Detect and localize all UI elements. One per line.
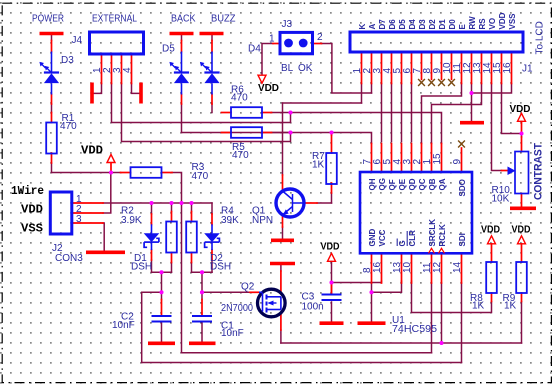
pin pot bot (521, 194, 523, 207)
svg-text:DSH: DSH (131, 262, 152, 273)
wire Q2 drain (280, 265, 282, 271)
svg-text:4: 4 (122, 67, 133, 73)
pin J1 16 (511, 52, 513, 84)
wire R7 top stub (331, 133, 333, 136)
wire gate branch (202, 291, 250, 293)
svg-text:D3: D3 (61, 55, 74, 66)
pin R9 bot (521, 293, 523, 302)
svg-text:1K: 1K (312, 160, 325, 171)
svg-text:10K: 10K (492, 194, 510, 205)
wire SRCLK drop (431, 283, 433, 353)
junction (329, 130, 333, 134)
resistor R6 (231, 107, 262, 118)
wire R2 bottom (171, 263, 173, 273)
pin J2 p1 (72, 202, 103, 204)
svg-text:E: E (458, 24, 467, 30)
junction (469, 91, 473, 95)
svg-text:470: 470 (231, 93, 248, 104)
wire C2 top (161, 292, 163, 299)
svg-text:EXTERNAL: EXTERNAL (92, 14, 137, 25)
svg-text:QG: QG (378, 178, 387, 190)
svg-text:SRCLK: SRCLK (428, 219, 437, 247)
junction (159, 270, 163, 274)
pin J1 8 (431, 52, 433, 79)
pin R6 right (262, 112, 272, 114)
gnd bar J2 (86, 251, 125, 255)
pin U1 top 381.5 (381, 144, 383, 173)
pin R3 right (162, 172, 172, 174)
wire J4pin3 jog (122, 84, 291, 142)
pin Q1 coll (282, 175, 284, 191)
gnd bar Q1 (271, 239, 294, 243)
pin U1 bot 441.5 (441, 253, 443, 283)
svg-text:1K: 1K (472, 301, 485, 312)
pin VDD15 (521, 122, 523, 134)
svg-text:RS: RS (478, 18, 487, 30)
wire Q2 source (280, 330, 282, 343)
VDD terminal R8 (488, 236, 496, 244)
wire J4pin1 gnd (92, 84, 101, 94)
wire J4pin4 gnd (132, 84, 141, 94)
pin R4 bot (191, 253, 193, 263)
pin J1 2 (371, 52, 373, 84)
wire C1 bottom (201, 322, 203, 342)
svg-text:D4: D4 (248, 44, 261, 55)
svg-text:10nF: 10nF (221, 328, 244, 339)
wire to SDI branch (142, 292, 162, 362)
svg-text:VDD: VDD (321, 242, 340, 253)
svg-text:CON3: CON3 (55, 253, 83, 264)
svg-text:14: 14 (452, 261, 463, 273)
svg-text:QB: QB (428, 178, 437, 190)
wire VDD3 drop (331, 262, 333, 294)
wire Q1 base (317, 202, 332, 204)
VDD terminal R9 (518, 236, 526, 244)
pin D3 top (51, 41, 53, 52)
LED D4 (200, 52, 220, 95)
pin R5 right (262, 132, 272, 134)
svg-text:2: 2 (317, 32, 323, 43)
junction (519, 131, 523, 135)
resistor R7 (326, 153, 337, 184)
pin R9 top (521, 244, 523, 262)
pin U1 top 421.5 (421, 144, 423, 173)
wire RCLK drop (441, 283, 443, 343)
junction (439, 341, 443, 345)
no-connect pin (418, 79, 425, 86)
pin U1 top 411.5 (411, 144, 413, 173)
svg-text:12: 12 (432, 261, 443, 273)
svg-text:10: 10 (402, 261, 413, 273)
svg-text:D1: D1 (438, 19, 447, 30)
power bar BUZZ (200, 32, 224, 36)
gnd bar C2 (148, 341, 175, 345)
svg-text:BACK: BACK (171, 14, 196, 25)
svg-text:QF: QF (388, 179, 397, 190)
wire QA trunk (272, 113, 442, 144)
wire C1 top (201, 292, 203, 299)
wire J1 pin3 drop (381, 84, 383, 142)
pin U1 top 441.5 (441, 144, 443, 173)
pin VDD2 rail (110, 163, 112, 173)
pin U1 sdo (461, 148, 463, 172)
svg-text:DSH: DSH (210, 262, 231, 273)
svg-text:D0: D0 (448, 19, 457, 30)
svg-text:RCLK: RCLK (438, 224, 447, 246)
svg-text:VDD: VDD (510, 104, 531, 115)
wire D4 lower (211, 104, 213, 113)
svg-text:100n: 100n (302, 302, 324, 313)
wire VDD rail (52, 172, 121, 174)
junction (159, 290, 163, 294)
wire U1 pin8 gnd (371, 283, 373, 322)
svg-text:VO: VO (488, 18, 497, 30)
clock edge marks pins 11,12 (429, 248, 445, 253)
pin Q1 emit (282, 216, 284, 228)
pin J4 p2 (111, 54, 113, 84)
svg-text:1Wire: 1Wire (11, 184, 44, 198)
wire C2 bottom (161, 322, 163, 342)
junction (288, 110, 292, 114)
wire R1 to rail (51, 163, 53, 173)
svg-text:D2: D2 (428, 19, 437, 30)
svg-text:SDO: SDO (458, 179, 467, 196)
wire Y2 SRCLK (182, 352, 432, 354)
wire drop right (201, 272, 203, 292)
wire 1Wire bus (103, 202, 212, 204)
svg-text:QC: QC (418, 178, 427, 190)
svg-text:D7: D7 (378, 19, 387, 30)
svg-text:QD: QD (408, 178, 417, 190)
overlines for G and CLR pin labels (397, 231, 407, 246)
potentiometer R10 (508, 152, 529, 194)
svg-text:9: 9 (452, 159, 463, 165)
pin U1 top 391.5 (391, 144, 393, 173)
wire QC E net (422, 84, 462, 144)
wire D3 stub (51, 35, 53, 41)
pin J4 p1 (101, 54, 103, 84)
LED D3 (39, 52, 59, 95)
diode D2 (204, 224, 220, 250)
svg-text:VSS: VSS (21, 222, 43, 236)
svg-text:VSS: VSS (508, 13, 517, 30)
junction (169, 201, 173, 205)
svg-text:D5: D5 (162, 44, 175, 55)
pin R7 bot (331, 183, 333, 193)
wire Y1 RCLK (281, 342, 522, 344)
wire J2 pin2 riser (103, 173, 111, 214)
pin J1 10 (451, 52, 453, 79)
svg-text:SDI: SDI (458, 233, 467, 246)
wire D3 upper2 (51, 104, 53, 113)
resistor R1 (46, 123, 57, 154)
pin U1 bot 431.5 (431, 253, 433, 283)
pin Q1 base (305, 202, 318, 204)
svg-text:16: 16 (502, 62, 513, 74)
junction (189, 201, 193, 205)
pin D4 top (211, 41, 213, 52)
svg-text:470: 470 (232, 150, 249, 161)
svg-text:1: 1 (269, 34, 275, 45)
wire J3 pin2 A (322, 44, 372, 94)
svg-text:Q2: Q2 (241, 282, 255, 293)
no-connect pin (428, 79, 435, 86)
pin C1 top (201, 300, 203, 316)
capacitor C2 (152, 316, 172, 322)
gnd bar U1gnd (358, 321, 386, 325)
pin J1 12 (471, 52, 473, 84)
wire J3 pin1 vdd (262, 44, 273, 75)
svg-text:D6: D6 (388, 19, 397, 30)
wire Q1 emitter (282, 227, 284, 239)
capacitor C3 (322, 295, 342, 301)
wire pot top (521, 134, 523, 138)
bar Q2 drain (270, 262, 295, 266)
svg-text:VDD: VDD (258, 83, 279, 94)
wire J1 pin6 drop (411, 84, 413, 142)
wire D4 stub (211, 35, 213, 41)
pin R3 left (121, 172, 131, 174)
power bar BACK (170, 32, 194, 36)
svg-text:RW: RW (468, 16, 477, 30)
pin J1 11 (461, 52, 463, 84)
junction (179, 201, 183, 205)
connector J4 EXTERNAL (90, 32, 144, 54)
wire SDI drop (461, 283, 463, 363)
wire drop left (161, 272, 163, 292)
svg-text:3.9K: 3.9K (121, 215, 142, 226)
svg-text:J4: J4 (72, 35, 83, 46)
wire R4 top (191, 203, 193, 212)
pin R5 left (222, 132, 232, 134)
pin Q2 source (280, 314, 282, 331)
pin J2 p2 (72, 212, 103, 214)
LED D5 (169, 52, 189, 95)
svg-text:3: 3 (76, 214, 82, 225)
pin D2 bot (211, 250, 213, 260)
svg-text:16: 16 (372, 261, 383, 273)
wire J1 pin2 drop (371, 84, 373, 94)
gnd bar J4 left (90, 83, 94, 104)
wire VSS join (472, 84, 512, 94)
junction (149, 201, 153, 205)
svg-text:VDD: VDD (21, 203, 43, 217)
wire D2 bottom (211, 260, 213, 272)
transistor Q2 2N7000 (258, 289, 286, 317)
svg-text:10nF: 10nF (112, 320, 135, 331)
junction (288, 130, 292, 134)
svg-text:G: G (398, 240, 407, 246)
svg-text:39K: 39K (221, 215, 239, 226)
svg-text:VDD: VDD (498, 12, 507, 29)
pin C3 top (331, 283, 333, 294)
pin J1 3 (381, 52, 383, 84)
wire D1 top (151, 203, 153, 214)
resistor R9 (516, 262, 527, 293)
pin D4 bot (211, 95, 213, 105)
svg-text:J1: J1 (522, 64, 533, 75)
svg-text:BUZZ: BUZZ (211, 14, 236, 25)
pin J1 15 (501, 52, 503, 84)
pin U1 bot 401.5 (401, 253, 403, 283)
svg-text:470: 470 (60, 121, 77, 132)
gnd bar R10 (510, 207, 536, 211)
pin R1 top (51, 113, 53, 123)
svg-text:2N7000: 2N7000 (221, 303, 253, 314)
junction (109, 170, 113, 174)
junction (369, 290, 373, 294)
svg-text:BL: BL (281, 63, 294, 74)
wire R5 right (272, 132, 291, 134)
gnd bar C1 (189, 341, 216, 345)
wire QB RS net (432, 84, 482, 144)
pin R2 bot (171, 253, 173, 263)
svg-text:470: 470 (192, 171, 209, 182)
svg-text:15: 15 (432, 153, 443, 165)
pin J4 p4 (131, 54, 133, 84)
pin D3 bot (51, 95, 53, 105)
wire U join left (152, 271, 172, 273)
pin D5 bot (181, 95, 183, 105)
wire J4pin2 jog (112, 84, 291, 123)
pin J1 14 (491, 52, 493, 84)
wire J1 pin4 drop (391, 84, 393, 142)
transistor Q1 NPN (276, 189, 304, 217)
wire R4 bottom (191, 263, 193, 273)
wire D1 bottom (151, 260, 153, 272)
no-connect SDO (458, 141, 465, 148)
pin pot wiper (502, 170, 509, 172)
resistor R2 (166, 222, 177, 253)
VDD terminal C3 (328, 253, 336, 261)
wire VO wiper (492, 84, 502, 171)
pin J1 4 (391, 52, 393, 84)
connector J2 CON3 (50, 192, 72, 234)
svg-text:QE: QE (398, 178, 407, 190)
resistor R3 (131, 167, 162, 178)
pin D1 bot (151, 250, 153, 260)
svg-text:VDD: VDD (81, 143, 103, 157)
svg-text:D3: D3 (418, 19, 427, 30)
IC U1 74HC595 (360, 172, 472, 253)
gnd bar C3 (320, 321, 344, 325)
connector J3 jumper (280, 32, 313, 53)
resistor R4 (186, 222, 197, 253)
wire D5 lower (181, 104, 183, 133)
wire K net (283, 102, 362, 104)
wire D5 stub (181, 35, 183, 41)
gnd bar J4 right (139, 83, 143, 104)
svg-text:OK: OK (298, 63, 313, 74)
svg-text:VDD: VDD (481, 225, 500, 236)
wire R3 right to bus drop (172, 173, 182, 353)
pin Q2 gate (250, 291, 259, 293)
wire OE join (372, 281, 402, 292)
pin J1 9 (441, 52, 443, 79)
svg-text:1K: 1K (504, 301, 517, 312)
svg-text:CLR: CLR (408, 230, 417, 247)
wire R9 bottom (521, 302, 523, 344)
pin U1 top 431.5 (431, 144, 433, 173)
wire QH trunk (182, 133, 372, 144)
pin U1 bot 461.5 (461, 253, 463, 283)
pin D2 top (211, 214, 213, 225)
pin J1 5 (401, 52, 403, 84)
wire R7 bottom drop (331, 193, 333, 203)
pin J2 p3 (72, 222, 103, 224)
svg-text:QH: QH (368, 178, 377, 190)
wire Q1 collector riser (282, 103, 284, 175)
svg-text:A: A (368, 24, 377, 30)
pin R7 top (331, 135, 333, 153)
wire R2 top (171, 203, 173, 212)
pin R2 top (171, 212, 173, 222)
wire J1 pin1 drop (361, 84, 363, 104)
pin R8 top (491, 244, 493, 262)
svg-text:VCC: VCC (378, 229, 387, 246)
svg-text:NPN: NPN (252, 215, 273, 226)
wire Y3 SDI (142, 362, 462, 364)
pin C2 top (161, 300, 163, 316)
resistor R8 (486, 262, 497, 293)
pin R1 bot (51, 153, 53, 163)
junction (200, 290, 204, 294)
pin U1 bot 371.5 (371, 253, 373, 283)
no-connect pin (438, 79, 445, 86)
svg-text:D5: D5 (398, 19, 407, 30)
pin Q2 drain (280, 271, 282, 293)
VDD terminal rail (107, 155, 115, 163)
svg-text:To LCD: To LCD (535, 21, 546, 54)
wire U join right (192, 271, 213, 273)
pin pot top (521, 137, 523, 152)
VDD terminal R10 (518, 113, 526, 121)
svg-text:VDD: VDD (512, 225, 531, 236)
svg-text:GND: GND (368, 229, 377, 247)
pin R4 top (191, 212, 193, 222)
pin J1 1 (361, 52, 363, 84)
wire CLR net (412, 281, 492, 313)
wire U1 pin16 vcc (332, 281, 382, 283)
pin J1 6 (411, 52, 413, 84)
pin R8 bot (491, 293, 493, 302)
svg-text:QA: QA (438, 178, 447, 190)
svg-text:D4: D4 (408, 19, 417, 30)
pin J3 p1 (273, 43, 280, 45)
junction (329, 280, 333, 284)
wire D2 top (211, 203, 213, 214)
pin J4 p3 (121, 54, 123, 84)
pin J1 13 (481, 52, 483, 84)
svg-text:CONTRAST: CONTRAST (533, 143, 545, 200)
junction (200, 270, 204, 274)
no-connect pin (448, 79, 455, 86)
svg-text:74HC595: 74HC595 (392, 324, 437, 335)
gnd bar RW (460, 121, 484, 125)
resistor R5 (231, 127, 262, 138)
svg-text:J3: J3 (282, 19, 293, 30)
wire J2 pin3 to gnd (103, 223, 104, 251)
pin D5 top (181, 41, 183, 52)
pin J3 p2 (313, 43, 322, 45)
wire C3 bottom (331, 302, 333, 322)
diode D1 (144, 224, 160, 250)
connector J1 LCD (350, 32, 523, 52)
svg-text:K: K (358, 24, 367, 30)
pin U1 bot 411.5 (411, 253, 413, 283)
pin U1 bot 381.5 (381, 253, 383, 283)
wire J1 pin5 drop (401, 84, 403, 142)
